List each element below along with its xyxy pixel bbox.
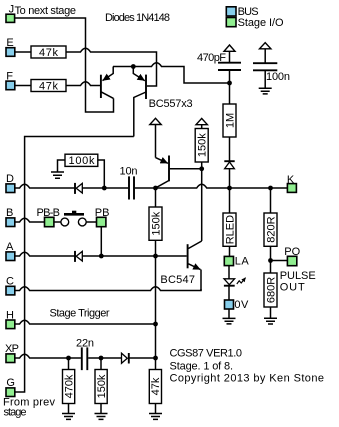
junction D line / Q3 collector / 150k top [153,186,158,191]
ground below 150k [95,404,108,420]
wire PB-B square to button contact [54,221,61,223]
svg-text:150k: 150k [197,133,209,157]
wire RLED to LA square [229,246,231,256]
resistor 150k (bottom) [95,358,108,404]
svg-text:22n: 22n [76,337,94,349]
node LA label [235,256,250,268]
node PO label [284,246,300,258]
label Diodes 1N4148 [105,12,170,24]
resistor 47k (E row) [31,46,66,59]
power +V arrow above 100n [260,43,271,63]
ground below 680R [264,307,277,324]
wire 22n to diode [88,357,121,359]
power +V arrow above 150k (mid right) [196,118,207,128]
wire 820R to PO node [270,246,272,273]
node PB I/O square [97,217,106,226]
label BC547 [160,274,195,286]
svg-text:BC557x3: BC557x3 [149,98,193,110]
node XP label [5,343,19,355]
junction A line / 150k / BC547 base / trigger bus [153,254,158,259]
svg-text:680R: 680R [265,277,277,303]
svg-text:BC547: BC547 [160,274,195,286]
transistor Q1 BC557 (left PNP) base bar [100,75,102,98]
transistor Q2 collector diagonal [134,92,146,137]
transistor Q3 base wire to 150k node [170,168,202,170]
label PB-B [37,207,61,219]
wire D row: square to diode, hop over G bus [15,184,75,188]
label Stage. 1 of 8. [170,361,234,373]
label To next stage [15,5,77,17]
node B label [6,207,13,219]
resistor 820R [264,188,277,246]
node C BUS square [6,286,15,295]
svg-text:Stage I/O: Stage I/O [238,17,284,29]
wire node E to resistor [15,51,31,53]
svg-text:Stage Trigger: Stage Trigger [50,307,110,319]
svg-text:Copyright 2013 by Ken Stone: Copyright 2013 by Ken Stone [170,373,325,385]
wire A row: diode to BC547 base node [82,255,155,257]
svg-text:CGS87 VER1.0: CGS87 VER1.0 [170,347,243,359]
transistor Q2 emitter with arrow [133,67,145,81]
node H label [6,309,14,321]
label PULSE OUT [280,270,316,293]
node D label [6,173,14,185]
diode A row (cathode left) [75,251,82,262]
wire E row: resistor to Q2 base drop, hop over J line [66,48,157,86]
LED (to 0V) [224,266,235,300]
junction D line / 100k node [102,186,107,191]
node J label [9,4,15,16]
node B BUS square [6,218,15,227]
node E BUS square [6,48,15,57]
transistor Q1 emitter with arrow [103,67,114,81]
transistor Q2 BC557 (right PNP) base bar [145,75,147,99]
legend BUS text [238,6,259,18]
transistor Q4 collector diagonal [188,241,201,249]
node PO I/O square [287,256,296,265]
wire Q4 emitter down to C line [200,270,202,291]
label 470pF [197,52,226,64]
ground below 100k left lead [51,172,64,178]
svg-text:47k: 47k [150,377,162,395]
transistor Q3 BC557 base bar [168,156,170,182]
svg-text:stage: stage [4,407,27,419]
junction H line / trigger bus [153,322,158,327]
wire emitter rail of Q1/Q2 to 470pF node, hop over E drop [113,63,230,83]
svg-text:10n: 10n [120,165,138,177]
resistor 47k (F row) [31,80,66,93]
junction 470pF / 1M / emitter rail node [227,81,232,86]
junction XP line / 470k [66,356,71,361]
capacitor 100n [253,63,277,88]
node G I/O square [6,388,15,397]
transistor Q1 collector diagonal [101,92,114,99]
diode XP row (cathode right) [122,353,129,364]
svg-text:470k: 470k [63,374,75,398]
svg-text:47k: 47k [39,47,59,59]
wire diode to trigger bus [129,357,156,359]
transistor Q4 emitter with arrow [188,264,200,270]
resistor 680R [264,273,277,307]
LED light arrow [237,278,246,284]
node K label [287,174,295,186]
power +V arrow above 470pF [224,45,235,62]
wire C row: square to Q4 emitter, hops over G bus and trigger bus [15,287,201,291]
svg-text:100n: 100n [266,71,290,83]
svg-text:47k: 47k [39,80,59,92]
legend Stage I/O square [226,18,236,27]
wire PO node to square [271,260,288,262]
power +V arrow above Q3 emitter [150,118,161,157]
svg-text:Diodes 1N4148: Diodes 1N4148 [105,12,170,24]
junction K line / 1M diode / RLED [227,186,232,191]
svg-text:820R: 820R [265,216,277,242]
junction Q3 base / 150k / BC547 collector node [199,166,204,171]
junction K line / 820R [268,186,273,191]
svg-text:150k: 150k [96,374,108,398]
node A label [6,241,14,253]
node D BUS square [6,184,15,193]
node G label [6,377,15,389]
legend BUS square [226,7,236,16]
svg-text:PULSE: PULSE [280,270,316,282]
wire H row (stage trigger) to bus, hop over G bus [15,320,156,324]
label stage [4,407,27,419]
resistor 100k [58,154,105,188]
wire A row: square to diode, hop over G bus [15,252,75,256]
ground below 47k [149,404,162,420]
label 10n [120,165,138,177]
node A BUS square [6,252,15,261]
node J I/O square [6,14,15,22]
label Copyright 2013 by Ken Stone [170,373,325,385]
wire XP row: square to 22n, hop over G bus [15,354,81,358]
capacitor 470pF [218,63,241,83]
wire button contact to PB square [86,221,96,223]
label From prev [3,396,56,408]
node PB-B I/O square [45,217,54,226]
transistor Q3 collector diagonal to D line [156,181,169,188]
svg-text:Stage. 1 of 8.: Stage. 1 of 8. [170,361,234,373]
transistor Q4 BC547 base bar [187,244,189,268]
svg-text:LA: LA [235,256,250,268]
junction XP line / trigger bus / 47k [153,356,158,361]
transistor Q3 emitter with arrow [156,158,168,164]
capacitor 22n [82,347,88,370]
node H I/O square [6,320,15,329]
ground below 0V [223,309,236,324]
capacitor 10n [129,176,134,199]
junction emitters Q1-Q2 [131,64,136,69]
svg-text:150k: 150k [150,211,162,235]
wire node F to resistor [15,85,31,87]
node XP I/O square [6,354,15,363]
wire D row: diode to 10n [82,187,128,189]
legend Stage I/O text [238,17,284,29]
resistor 47k (bottom) [149,370,162,404]
wire BC547 collector vertical [201,169,203,241]
diode D row (cathode left) [75,183,82,194]
resistor 150k (to +V, mid right) [195,129,208,163]
wire G: square right then up the G bus to Q2 collector [15,137,134,393]
resistor 1M [223,83,236,137]
junction XP line / 150k [99,356,104,361]
node K I/O square [287,184,296,193]
node F BUS square [6,81,15,90]
push button PB (bar, nub, contacts) [61,211,86,226]
node E label [6,37,13,49]
junction A line / PB drop [99,254,104,259]
svg-text:1M: 1M [224,113,236,128]
resistor 150k (between D line and A line) [149,188,162,256]
svg-text:RLED: RLED [224,215,236,244]
wire F row: resistor to Q1 base, hop over J line [66,82,100,86]
resistor 470k [63,358,76,404]
node 0V BUS square [225,300,234,309]
svg-text:OUT: OUT [280,281,305,293]
wire 150k bottom to Q3 base node [201,162,203,169]
svg-text:100k: 100k [69,155,96,167]
wire PB square down to A line [100,227,102,256]
diode below 1M (cathode up) [224,137,234,188]
label 22n [76,337,94,349]
node LA I/O square [224,256,233,265]
svg-text:0V: 0V [234,299,249,311]
resistor RLED [223,188,236,246]
wire BC547 base [156,255,187,257]
node C label [6,276,14,288]
svg-text:To next stage: To next stage [15,5,77,17]
wire trigger bus vertical (BC547 base node down to 47k) [155,256,157,370]
wire K line: junction to K square, hop over BC547 collector line [156,184,288,188]
wire net J: square to right, down past E/F rows to Q1 collector loop [15,18,114,112]
wire B row to push button, hop over G bus [15,218,45,222]
label CGS87 VER1.0 [170,347,243,359]
label Stage Trigger [50,307,110,319]
ground below 100n [259,88,272,94]
ground below 470k [62,404,75,420]
wire 10n to junction [135,187,156,189]
junction 820R / 680R / PO [268,258,273,263]
node F label [6,70,13,82]
label PB [95,207,110,219]
label 100n [266,71,290,83]
node 0V label [234,299,249,311]
label BC557x3 [149,98,193,110]
